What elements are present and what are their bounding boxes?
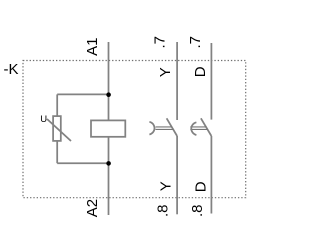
contact D fixed terminal xyxy=(210,43,212,120)
wire branch left lower xyxy=(56,141,58,163)
svg-text:D: D xyxy=(192,66,209,77)
contact Y actuator arc xyxy=(149,122,154,135)
svg-text:A2: A2 xyxy=(84,199,101,217)
junction node top xyxy=(106,92,111,97)
contact Y lower terminal xyxy=(176,136,178,214)
contact Y fixed terminal xyxy=(176,42,178,120)
wire branch bottom xyxy=(57,162,108,164)
svg-text:U: U xyxy=(40,114,47,125)
contact D actuator arc xyxy=(191,122,196,135)
relay coil K xyxy=(91,120,125,136)
svg-text:.7: .7 xyxy=(187,36,204,49)
svg-text:Y: Y xyxy=(157,67,174,77)
contact Y blade xyxy=(167,118,178,136)
wire A2 vertical xyxy=(108,137,110,215)
svg-text:.7: .7 xyxy=(151,36,168,49)
contact Y actuator link lower xyxy=(156,128,174,130)
svg-text:A1: A1 xyxy=(84,38,101,56)
contact D actuator link upper xyxy=(190,126,206,128)
varistor U body xyxy=(53,116,61,141)
wire branch top xyxy=(57,93,108,95)
svg-text:D: D xyxy=(193,181,210,192)
wire A1 vertical xyxy=(108,42,110,120)
svg-text:-K: -K xyxy=(4,61,19,78)
junction node bottom xyxy=(106,161,111,166)
dashed enclosure -K xyxy=(23,61,246,198)
contact D blade xyxy=(201,118,212,136)
contact Y actuator link upper xyxy=(156,126,173,128)
wire branch left upper xyxy=(56,94,58,116)
contact D lower terminal xyxy=(210,136,212,214)
svg-text:Y: Y xyxy=(158,181,175,191)
contact D actuator link lower xyxy=(190,128,208,130)
svg-text:.8: .8 xyxy=(154,204,171,217)
varistor diagonal stroke xyxy=(47,119,71,141)
svg-text:.8: .8 xyxy=(189,204,206,217)
